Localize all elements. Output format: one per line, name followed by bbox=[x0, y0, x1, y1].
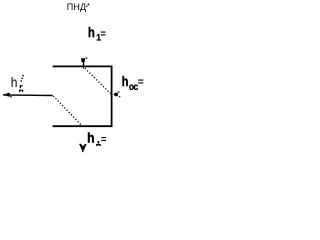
svg-text:=: = bbox=[101, 134, 107, 145]
svg-text:=: = bbox=[100, 29, 106, 40]
svg-text:=: = bbox=[138, 77, 144, 88]
svg-text:h: h bbox=[87, 129, 94, 145]
svg-text:h: h bbox=[122, 74, 129, 90]
svg-text:h: h bbox=[11, 74, 18, 90]
svg-text:h: h bbox=[88, 24, 95, 41]
svg-text:ос: ос bbox=[129, 81, 138, 93]
svg-text:ПНД: ПНД bbox=[67, 2, 86, 12]
